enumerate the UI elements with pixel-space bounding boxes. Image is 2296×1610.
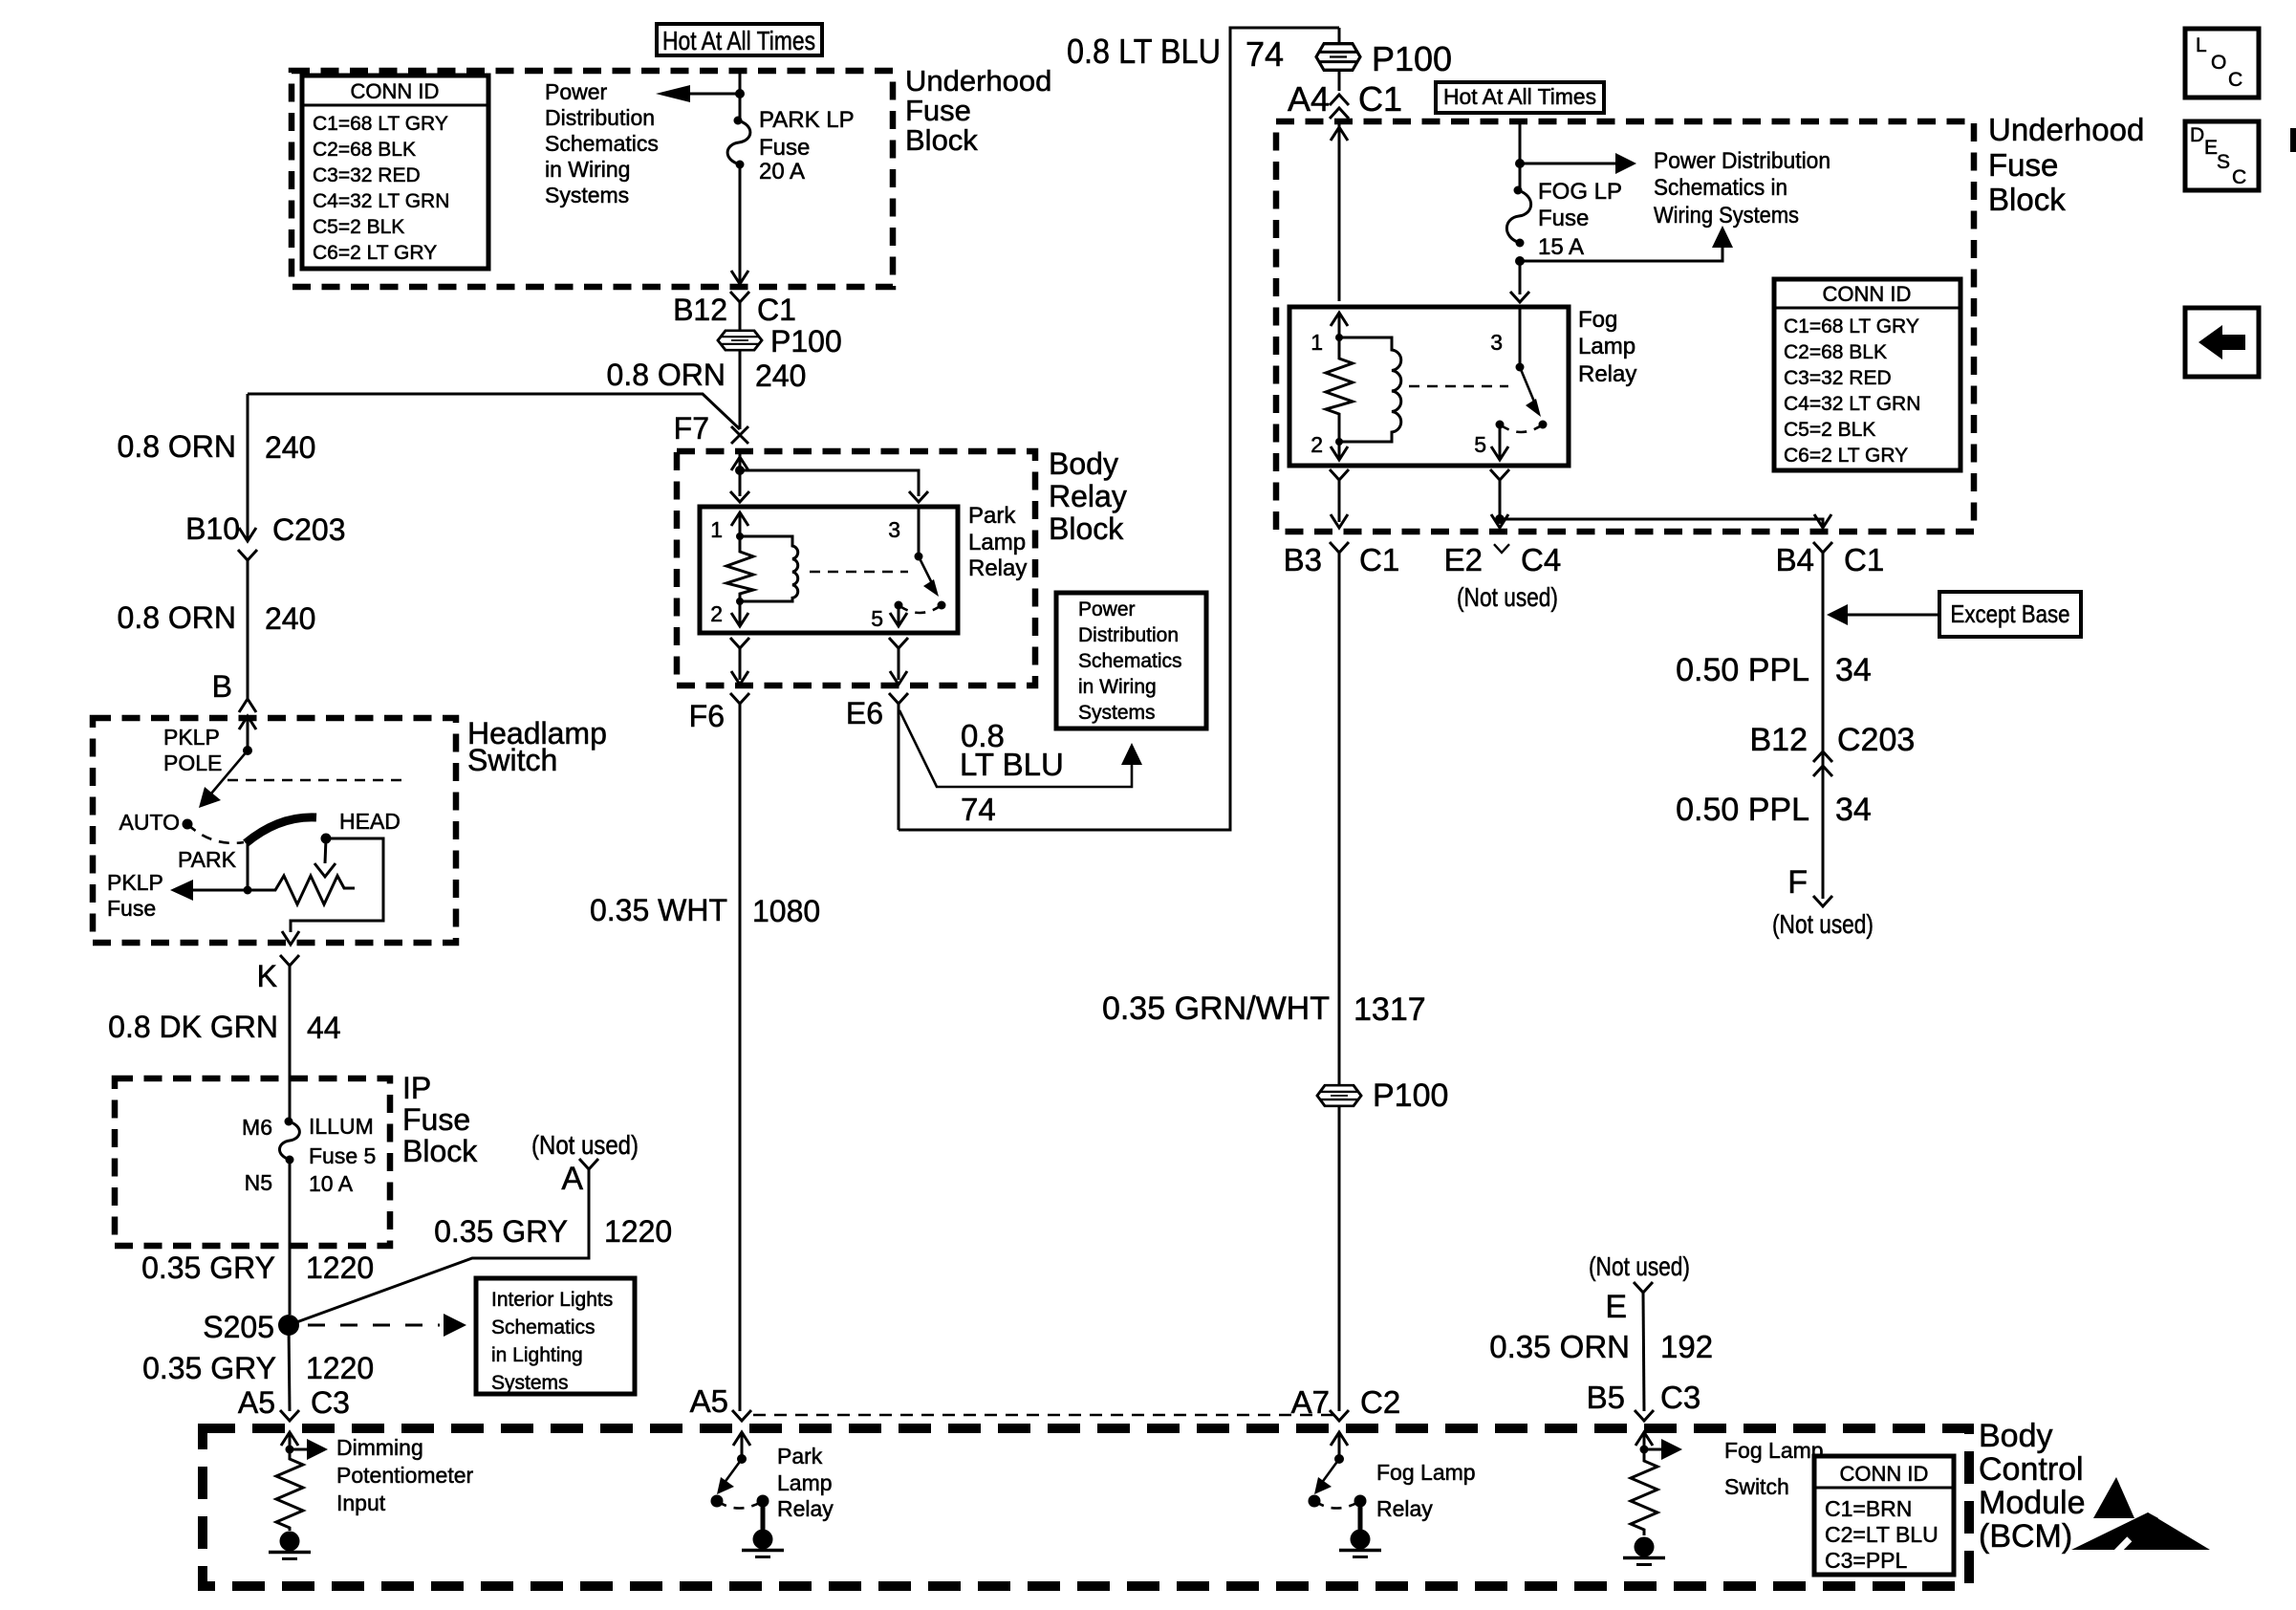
connector flare B5/C3 at BCM <box>1635 1410 1654 1421</box>
thin dashed boundary segment A5-A7 <box>753 1414 1336 1417</box>
svg-text:1220: 1220 <box>604 1214 672 1249</box>
svg-text:C2: C2 <box>1360 1384 1400 1420</box>
svg-text:Fuse: Fuse <box>905 94 971 127</box>
svg-text:Block: Block <box>402 1134 478 1168</box>
connector flare A7/C2 at BCM <box>1330 1410 1349 1421</box>
svg-text:C3: C3 <box>1660 1380 1700 1415</box>
svg-text:Power: Power <box>1078 598 1136 620</box>
svg-text:2: 2 <box>1310 432 1323 457</box>
svg-text:N5: N5 <box>245 1170 272 1195</box>
CONN ID table (right underhood) <box>1774 279 1960 470</box>
pin 5 exit flare below relay <box>889 638 908 680</box>
svg-text:M6: M6 <box>242 1115 272 1140</box>
svg-text:Control: Control <box>1979 1451 2084 1488</box>
label: B3 | C1 <box>1284 542 1400 577</box>
wire: C203 to headlamp switch <box>247 560 249 699</box>
svg-text:HEAD: HEAD <box>339 809 401 834</box>
svg-text:PARK LP: PARK LP <box>759 107 855 133</box>
svg-text:O: O <box>2211 52 2226 74</box>
svg-text:Schematics: Schematics <box>545 131 659 156</box>
note box: Interior Lights Schematics in Lighting Systems <box>476 1278 635 1394</box>
svg-text:(Not used): (Not used) <box>1772 909 1874 939</box>
AUTO contact dot <box>183 819 193 830</box>
svg-text:34: 34 <box>1835 652 1872 688</box>
connector B12/C203 chevrons <box>1813 751 1832 776</box>
junction at fuse feed <box>735 89 745 98</box>
fog lamp relay lever to ground (BCM) <box>1354 1495 1367 1531</box>
svg-text:(BCM): (BCM) <box>1979 1518 2072 1555</box>
svg-text:Block: Block <box>905 123 978 157</box>
BCM fog lamp switch input arrow <box>1635 1432 1653 1449</box>
label: 0.35 GRY | 1220 (branch A) <box>434 1214 672 1249</box>
svg-text:C3=32 RED: C3=32 RED <box>1784 367 1892 389</box>
wire: feed from Hot At All Times down to PARK LP fuse <box>739 71 742 120</box>
svg-text:1220: 1220 <box>306 1251 374 1285</box>
note: Power Distribution Schematics in Wiring Systems (left) <box>545 79 659 207</box>
label: B4 | C1 <box>1776 542 1885 577</box>
B4 arrow at block boundary <box>1814 514 1831 528</box>
svg-text:A: A <box>561 1161 583 1197</box>
svg-text:Fuse: Fuse <box>1538 206 1589 231</box>
svg-text:0.35 GRY: 0.35 GRY <box>142 1351 276 1385</box>
dimming tap junction <box>286 1446 294 1454</box>
wire: fuse output down to block edge <box>739 164 742 284</box>
park lamp relay pivot dot (BCM) <box>737 1454 747 1464</box>
svg-text:F7: F7 <box>674 411 709 446</box>
svg-text:0.35 GRY: 0.35 GRY <box>434 1214 568 1249</box>
svg-text:C1: C1 <box>1844 542 1884 577</box>
pole switch arm with arrowhead <box>199 751 248 808</box>
park lamp relay switch arm (BCM) <box>717 1459 742 1494</box>
park lamp relay lever to ground (BCM) <box>757 1495 769 1531</box>
svg-text:C2=LT BLU: C2=LT BLU <box>1825 1522 1939 1547</box>
svg-text:in Lighting: in Lighting <box>491 1344 583 1366</box>
svg-text:5: 5 <box>871 606 883 631</box>
wire: fog fuse feed from boundary <box>1519 121 1522 190</box>
relay coil (park lamp relay) <box>740 536 798 601</box>
fog relay pin 5 exit flare <box>1490 469 1509 522</box>
svg-text:Fuse: Fuse <box>759 135 810 161</box>
svg-text:192: 192 <box>1660 1329 1713 1364</box>
svg-text:Underhood: Underhood <box>1988 112 2144 147</box>
svg-text:Fuse: Fuse <box>402 1102 470 1137</box>
svg-text:1: 1 <box>710 517 723 542</box>
svg-text:P100: P100 <box>1373 1077 1448 1114</box>
svg-text:C4: C4 <box>1521 542 1561 577</box>
svg-text:0.8 ORN: 0.8 ORN <box>607 358 726 392</box>
wire: arc left end down to PKLP fuse tap <box>247 844 249 890</box>
svg-text:PKLP: PKLP <box>107 870 163 895</box>
wire: down to relay pin 1 <box>739 470 742 496</box>
label: E2 | C4 <box>1444 542 1562 577</box>
svg-text:in Wiring: in Wiring <box>1078 676 1157 698</box>
body relay block dashed box <box>677 451 1035 685</box>
svg-text:Park: Park <box>777 1444 823 1469</box>
svg-text:Schematics: Schematics <box>491 1316 596 1338</box>
fog lamp switch resistor <box>1631 1449 1657 1535</box>
svg-text:Fuse 5: Fuse 5 <box>309 1143 376 1168</box>
pin 1 arrow <box>731 512 748 536</box>
svg-text:(Not used): (Not used) <box>531 1130 639 1160</box>
label: 0.50 PPL | 34 (lower) <box>1676 792 1872 828</box>
svg-text:0.8 DK GRN: 0.8 DK GRN <box>108 1010 278 1044</box>
svg-text:POLE: POLE <box>163 751 222 775</box>
grommet P100 (fog wire) <box>1317 1085 1361 1106</box>
svg-text:Systems: Systems <box>491 1372 569 1394</box>
junction below fog fuse <box>1515 256 1525 266</box>
connector flare F6 <box>730 693 749 1411</box>
svg-text:C5=2 BLK: C5=2 BLK <box>1784 419 1875 441</box>
fog relay pin 2 arrow <box>1331 442 1348 460</box>
svg-text:C6=2 LT GRY: C6=2 LT GRY <box>1784 445 1908 467</box>
svg-text:0.35 GRN/WHT: 0.35 GRN/WHT <box>1102 990 1330 1027</box>
branch A (not used) wire <box>289 1169 589 1325</box>
label: A7 | C2 <box>1291 1384 1401 1420</box>
svg-text:C1=BRN: C1=BRN <box>1825 1496 1912 1521</box>
CONN ID table (left underhood) <box>302 76 488 269</box>
wire: E (not used) branch above BCM <box>1634 1282 1653 1411</box>
arrow to Fog Lamp Switch label <box>1644 1439 1682 1460</box>
svg-text:0.35 WHT: 0.35 WHT <box>590 893 727 927</box>
label: Underhood Fuse Block (left) <box>905 64 1051 157</box>
pin 3 wire to switch pivot <box>918 507 921 556</box>
svg-text:C2=68 BLK: C2=68 BLK <box>1784 341 1887 363</box>
wire: branch to headlamp switch (horizontal + diagonal) <box>248 394 740 429</box>
svg-text:P100: P100 <box>770 324 842 359</box>
svg-text:F6: F6 <box>689 699 725 733</box>
svg-text:C203: C203 <box>1837 722 1915 758</box>
svg-text:Relay: Relay <box>968 555 1027 581</box>
svg-text:B12: B12 <box>1750 722 1809 758</box>
svg-text:Schematics in: Schematics in <box>1654 175 1787 201</box>
label: 0.35 GRY | 1220 (to BCM) <box>142 1351 374 1385</box>
arrow at headlamp switch entry <box>239 699 256 712</box>
svg-text:C2=68 BLK: C2=68 BLK <box>313 139 416 161</box>
arrow to Dimming Potentiometer Input label <box>290 1439 328 1460</box>
fog lamp switch tap junction <box>1640 1446 1649 1454</box>
svg-text:CONN ID: CONN ID <box>351 79 440 103</box>
svg-text:Fuse: Fuse <box>107 896 156 921</box>
ESD warning symbol <box>2071 1477 2210 1555</box>
svg-text:1080: 1080 <box>752 894 820 928</box>
fog relay linkage dashed <box>1409 385 1508 388</box>
label: Fog Lamp Switch <box>1724 1438 1824 1499</box>
park lamp relay box <box>700 507 958 633</box>
svg-text:Distribution: Distribution <box>1078 624 1179 646</box>
svg-text:B4: B4 <box>1776 542 1814 577</box>
junction at fog fuse feed <box>1515 159 1525 168</box>
svg-text:PKLP: PKLP <box>163 725 220 750</box>
connector flare B4/C1 <box>1813 542 1832 899</box>
svg-text:F: F <box>1787 864 1808 901</box>
svg-text:1: 1 <box>1310 330 1323 355</box>
svg-text:Schematics: Schematics <box>1078 650 1182 672</box>
svg-text:LT BLU: LT BLU <box>960 747 1064 782</box>
Except Base callout box <box>1939 592 2081 637</box>
svg-text:B3: B3 <box>1284 542 1322 577</box>
wire: branch over to relay pin 3 <box>740 470 919 496</box>
svg-text:10 A: 10 A <box>309 1171 354 1196</box>
label: PKLP POLE <box>163 725 222 775</box>
connector A4/C1 chevrons <box>1330 95 1349 119</box>
fog lamp relay box <box>1289 307 1569 466</box>
svg-text:0.50 PPL: 0.50 PPL <box>1676 652 1809 688</box>
label: Body Control Module (BCM) <box>1979 1418 2086 1555</box>
fog relay coil <box>1339 337 1401 442</box>
arrow to power distribution schematics (right) <box>1520 153 1636 174</box>
svg-text:CONN ID: CONN ID <box>1840 1462 1929 1486</box>
svg-text:Except Base: Except Base <box>1951 599 2070 628</box>
svg-text:2: 2 <box>710 601 723 626</box>
arrow inside headlamp switch <box>239 716 256 751</box>
wire: A4 feed down to fog lamp relay pin 1 <box>1338 121 1341 301</box>
svg-text:Distribution: Distribution <box>545 105 655 130</box>
label: PKLP Fuse <box>107 870 163 921</box>
CONN ID table (BCM) <box>1814 1456 1954 1575</box>
svg-text:IP: IP <box>402 1071 431 1105</box>
fuse PARK LP 20A symbol <box>727 117 750 169</box>
svg-text:ILLUM: ILLUM <box>309 1114 374 1139</box>
svg-text:A7: A7 <box>1291 1384 1330 1420</box>
label: 0.8 ORN | 240 (upper) <box>118 429 316 465</box>
svg-text:C5=2 BLK: C5=2 BLK <box>313 216 404 238</box>
label: ILLUM Fuse 5 10 A <box>309 1114 376 1196</box>
label: FOG LP Fuse 15 A <box>1538 179 1622 260</box>
svg-text:E2: E2 <box>1444 542 1483 577</box>
svg-text:(Not used): (Not used) <box>1589 1251 1690 1281</box>
edge mark <box>2290 128 2296 152</box>
fuse FOG LP 15A symbol <box>1506 186 1530 248</box>
svg-text:Lamp: Lamp <box>777 1470 833 1495</box>
label: 0.35 GRY | 1220 (below IP block) <box>141 1251 374 1285</box>
svg-text:AUTO: AUTO <box>119 810 180 835</box>
connector C1 chevron below block <box>730 292 749 302</box>
arrow to PKLP Fuse <box>170 880 248 901</box>
park lamp relay throw arc (BCM) <box>717 1501 763 1509</box>
svg-text:C1: C1 <box>757 293 796 327</box>
fog relay switch pivot dot <box>1516 363 1525 372</box>
label: B10 | C203 <box>185 511 345 547</box>
svg-text:Fuse: Fuse <box>1988 147 2058 183</box>
svg-text:Lamp: Lamp <box>968 530 1026 555</box>
wire: P100 down to branch <box>739 351 742 429</box>
svg-text:B: B <box>212 669 232 704</box>
label: Hot At All Times (left) <box>657 24 822 55</box>
svg-text:0.35 ORN: 0.35 ORN <box>1489 1329 1630 1364</box>
label: 0.8 DK GRN | 44 <box>108 1010 340 1045</box>
svg-text:B5: B5 <box>1587 1380 1625 1415</box>
wire entering body relay block <box>739 451 742 470</box>
label: B5 | C3 <box>1587 1380 1701 1415</box>
svg-text:Park: Park <box>968 503 1016 529</box>
svg-text:Hot At All Times: Hot At All Times <box>1443 84 1596 109</box>
svg-text:3: 3 <box>1490 330 1503 355</box>
svg-text:D: D <box>2190 124 2204 146</box>
connector flare B3/C1 <box>1330 542 1349 1411</box>
IP fuse block dashed box <box>115 1078 390 1246</box>
ground (fog lamp relay BCM) <box>1339 1530 1381 1557</box>
switch throw dashed arc <box>899 605 942 613</box>
svg-text:S205: S205 <box>203 1310 274 1344</box>
svg-text:15 A: 15 A <box>1538 234 1584 260</box>
svg-text:Input: Input <box>336 1490 386 1515</box>
svg-text:PARK: PARK <box>178 847 237 872</box>
svg-text:20 A: 20 A <box>759 159 805 185</box>
label: 0.35 GRN/WHT | 1317 <box>1102 990 1426 1028</box>
svg-text:Potentiometer: Potentiometer <box>336 1463 474 1488</box>
note: Power Distribution Schematics in Wiring Systems (right) <box>1654 148 1830 228</box>
pin 5 contact dot <box>895 601 903 610</box>
svg-text:Power Distribution: Power Distribution <box>1654 148 1830 174</box>
fog lamp relay throw arc (BCM) <box>1314 1501 1360 1509</box>
wire: E6 run to right riser <box>899 28 1339 830</box>
dashed reference arrow from S205 <box>308 1314 466 1337</box>
fog relay switch arm with arrowhead <box>1520 367 1541 417</box>
dimming potentiometer resistor <box>276 1449 303 1531</box>
potentiometer resistor (headlamp switch) <box>248 876 355 904</box>
pin 5 arrow at block boundary <box>890 671 907 685</box>
label: Headlamp Switch <box>467 716 607 777</box>
svg-text:Systems: Systems <box>1078 702 1156 724</box>
nav box LOC <box>2185 29 2259 98</box>
svg-text:C: C <box>2232 166 2246 188</box>
relay coil junction pin 1 <box>736 533 744 540</box>
svg-text:74: 74 <box>1245 34 1284 74</box>
fog relay pin 1 arrow <box>1331 313 1348 337</box>
svg-text:Relay: Relay <box>1049 479 1127 513</box>
svg-text:E6: E6 <box>846 696 883 730</box>
svg-text:34: 34 <box>1835 792 1872 828</box>
svg-text:0.8 LT BLU: 0.8 LT BLU <box>1067 32 1221 71</box>
relay switch linkage dashed <box>810 571 908 574</box>
label: 0.8 ORN | 240 (at P100) <box>607 358 807 393</box>
junction above park lamp relay <box>735 466 745 475</box>
svg-text:0.50 PPL: 0.50 PPL <box>1676 792 1809 828</box>
svg-text:Module: Module <box>1979 1485 2086 1521</box>
svg-text:0.8 ORN: 0.8 ORN <box>118 600 236 635</box>
label: PARK LP Fuse 20 A <box>759 107 855 185</box>
svg-text:Relay: Relay <box>1376 1496 1433 1521</box>
switch pivot dot (pin 3) <box>915 553 923 561</box>
svg-text:S: S <box>2217 151 2230 173</box>
arrow into body relay block <box>731 457 748 470</box>
fog relay pin 2 exit flare <box>1330 469 1349 522</box>
connector B10/C203 chevron <box>238 550 257 560</box>
BCM fog lamp relay input arrow <box>1331 1432 1348 1459</box>
svg-text:Power: Power <box>545 79 608 104</box>
wire: 0.8 ORN branch down to headlamp switch <box>247 394 249 541</box>
PKLP pole pivot dot <box>243 746 252 755</box>
connector flare at relay pin 3 <box>909 491 928 502</box>
connector arrow at left underhood block exit <box>731 271 748 284</box>
grommet P100 (left) <box>718 331 762 350</box>
svg-text:Interior Lights: Interior Lights <box>491 1289 613 1311</box>
wire: fuse to relay pin 3 <box>1519 261 1522 294</box>
svg-text:C1=68 LT GRY: C1=68 LT GRY <box>1784 315 1919 337</box>
svg-text:240: 240 <box>265 601 315 636</box>
svg-text:C4=32 LT GRN: C4=32 LT GRN <box>313 190 449 212</box>
label: 0.8 LT BLU | 74 (top) <box>1067 32 1284 74</box>
svg-text:240: 240 <box>265 430 315 465</box>
rotary contact thick arc <box>246 817 316 843</box>
headlamp switch dashed box <box>93 718 456 943</box>
arrow to power distribution schematics (left) <box>656 85 740 102</box>
label: Body Relay Block <box>1049 446 1127 546</box>
ground (fog lamp switch) <box>1623 1537 1665 1565</box>
switch contact dot <box>938 601 946 610</box>
svg-text:B10: B10 <box>185 511 240 546</box>
svg-text:B12: B12 <box>673 293 727 327</box>
connector flare at fog relay pin 3 <box>1510 292 1529 302</box>
BCM dimming input arrow <box>281 1432 298 1449</box>
svg-text:1317: 1317 <box>1354 991 1426 1028</box>
svg-text:240: 240 <box>755 359 806 393</box>
label: Park Lamp Relay <box>968 503 1027 581</box>
svg-text:Relay: Relay <box>1578 361 1636 387</box>
label: B12 | C1 <box>673 293 796 327</box>
svg-text:C3=32 RED: C3=32 RED <box>313 164 421 186</box>
fuse ILLUM Fuse 5 10A symbol <box>279 1118 299 1164</box>
note box: Power Distribution Schematics in Wiring Systems (center) <box>1056 593 1206 729</box>
pin 2 arrow to box edge <box>731 601 748 626</box>
svg-text:Switch: Switch <box>1724 1474 1789 1499</box>
svg-text:C203: C203 <box>272 512 346 547</box>
label: 0.35 ORN | 192 <box>1489 1329 1713 1364</box>
connector chevron E2/C4 <box>1494 544 1509 553</box>
park lamp relay contact dot (BCM) <box>711 1495 724 1508</box>
label: 0.35 WHT | 1080 <box>590 893 820 928</box>
potentiometer wiper arrow <box>314 838 336 877</box>
wire: pin 5 branch over to B4 <box>1500 519 1823 526</box>
svg-text:C6=2 LT GRY: C6=2 LT GRY <box>313 242 437 264</box>
wire: fuse output to S205 <box>289 1160 292 1315</box>
svg-text:Dimming: Dimming <box>336 1435 423 1460</box>
svg-text:Hot At All Times: Hot At All Times <box>662 26 815 55</box>
svg-text:L: L <box>2196 34 2207 56</box>
wire: to P100 grommet <box>739 302 742 330</box>
fog relay pin 3 wire to pivot <box>1519 307 1522 367</box>
wire crossing mark at F7 <box>731 426 748 444</box>
fog relay coil junction pin 1 <box>1335 334 1343 341</box>
svg-text:in Wiring: in Wiring <box>545 157 630 182</box>
arrow at headlamp switch output <box>282 931 299 945</box>
connector flare at relay pin 1 <box>730 491 749 502</box>
svg-text:E: E <box>2204 137 2218 159</box>
svg-text:Fog: Fog <box>1578 307 1617 333</box>
svg-text:Block: Block <box>1988 182 2066 217</box>
svg-text:A5: A5 <box>238 1385 275 1420</box>
svg-text:C1: C1 <box>1358 79 1402 119</box>
svg-text:P100: P100 <box>1372 39 1452 78</box>
ground (park lamp relay BCM) <box>742 1530 784 1557</box>
svg-text:E: E <box>1605 1289 1627 1325</box>
svg-text:3: 3 <box>888 517 900 542</box>
fog relay resistor <box>1326 337 1353 442</box>
svg-text:C4=32 LT GRN: C4=32 LT GRN <box>1784 393 1920 415</box>
pin 2 arrow at block boundary <box>731 671 748 685</box>
svg-text:44: 44 <box>307 1011 341 1045</box>
fog lamp relay contact dot (BCM) <box>1309 1495 1321 1508</box>
wire: S205 down to BCM <box>289 1325 290 1411</box>
svg-text:C3: C3 <box>311 1385 350 1420</box>
svg-text:Lamp: Lamp <box>1578 334 1635 359</box>
svg-text:Switch: Switch <box>467 743 557 777</box>
svg-text:C1: C1 <box>1359 542 1399 577</box>
leader from E6 to circuit label <box>899 710 1142 787</box>
junction at PKLP fuse tap <box>244 886 252 895</box>
arrow into right underhood block <box>1331 127 1348 141</box>
dashed throw arc from AUTO <box>187 824 244 843</box>
